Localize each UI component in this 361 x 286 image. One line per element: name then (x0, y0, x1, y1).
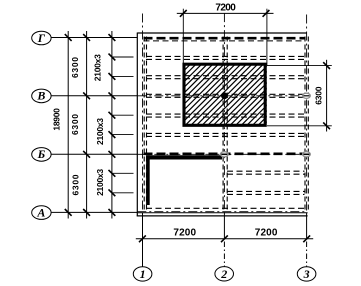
node joint pair y57 (146, 56, 305, 59)
wire right dimension line (326, 60, 328, 132)
node slab edge row B thick dashed (144, 153, 308, 156)
wire dim chain L2 6300 (86, 31, 88, 219)
node row B axis line (51, 153, 138, 155)
node monolithic corner thick L (146, 155, 150, 205)
svg-text:6300: 6300 (71, 174, 81, 195)
node right dim extensions (267, 65, 332, 67)
node axis3 centerline (306, 15, 308, 213)
node axis bubble B (32, 147, 51, 161)
node marker ellipse axis3 row V (303, 93, 311, 98)
node marker ellipse axis3 row B (303, 152, 311, 157)
svg-text:Б: Б (37, 147, 46, 161)
node axis bubble A (32, 205, 51, 219)
svg-text:7200: 7200 (255, 228, 278, 239)
node opening hatch (118, 56, 333, 131)
svg-text:6300: 6300 (70, 114, 80, 135)
node axis bubble 2 (215, 267, 234, 281)
node joint pair y172 right bay (227, 171, 305, 174)
node axis bubble V (32, 89, 51, 103)
svg-text:6300: 6300 (70, 57, 80, 78)
node row A axis line (51, 211, 138, 213)
node right dim ticks (323, 62, 330, 129)
wire top dimension line (177, 12, 274, 14)
node ticks left chains (65, 34, 116, 216)
svg-text:Г: Г (37, 31, 46, 45)
svg-text:1: 1 (140, 267, 146, 281)
wire top wall (137, 32, 306, 34)
svg-text:В: В (36, 89, 45, 103)
node bottom dim ticks (139, 235, 310, 242)
node axis2 centerline (223, 13, 225, 212)
node slab end dashed pair axis3 (305, 37, 308, 213)
svg-text:7200: 7200 (215, 2, 236, 13)
node slab edge row G thick dashed (144, 37, 306, 40)
svg-text:2100x3: 2100x3 (95, 118, 105, 145)
node joint pair y76 (146, 76, 305, 79)
svg-text:18900: 18900 (52, 108, 62, 131)
node top dim extensions (182, 9, 184, 66)
node L3 extension lines (112, 57, 134, 193)
node marker ellipse axis2 row B (220, 152, 228, 157)
node row G axis line (51, 37, 137, 39)
node joint pair row V (146, 94, 305, 97)
wire bottom wall lower (137, 215, 308, 217)
svg-text:7200: 7200 (173, 228, 196, 239)
node axis1 centerline (142, 14, 144, 213)
svg-text:6300: 6300 (313, 86, 323, 105)
node joint pair y134 (146, 133, 305, 136)
node slab edge row G thin dashed (144, 40, 305, 42)
node top dim ticks (180, 10, 270, 17)
node axis bubble 1 (133, 267, 152, 281)
node slab end dashed pair axis2 (223, 37, 227, 213)
wire dim chain L1 18900 (67, 31, 69, 219)
node opening border (184, 64, 265, 125)
node joint single y209 (146, 207, 305, 209)
svg-text:А: А (36, 205, 45, 219)
node slab end dashed pair axis1 (144, 37, 146, 213)
svg-text:2100x3: 2100x3 (93, 54, 103, 81)
wire dim chain L3 2100x3 (111, 31, 113, 219)
svg-text:2: 2 (220, 267, 227, 281)
wire bottom dimension line (136, 238, 313, 240)
svg-text:2100x3: 2100x3 (95, 169, 105, 196)
node joint pair y192 right bay (227, 191, 305, 194)
node axis bubble 3 (297, 267, 316, 281)
node opening center dot (221, 92, 228, 99)
wire bottom wall upper (137, 212, 308, 214)
node axis bubble G (32, 31, 51, 45)
wire left wall (136, 33, 138, 217)
node joint pair y114 (146, 114, 305, 117)
svg-text:3: 3 (303, 267, 310, 281)
node row V axis line (51, 95, 138, 97)
